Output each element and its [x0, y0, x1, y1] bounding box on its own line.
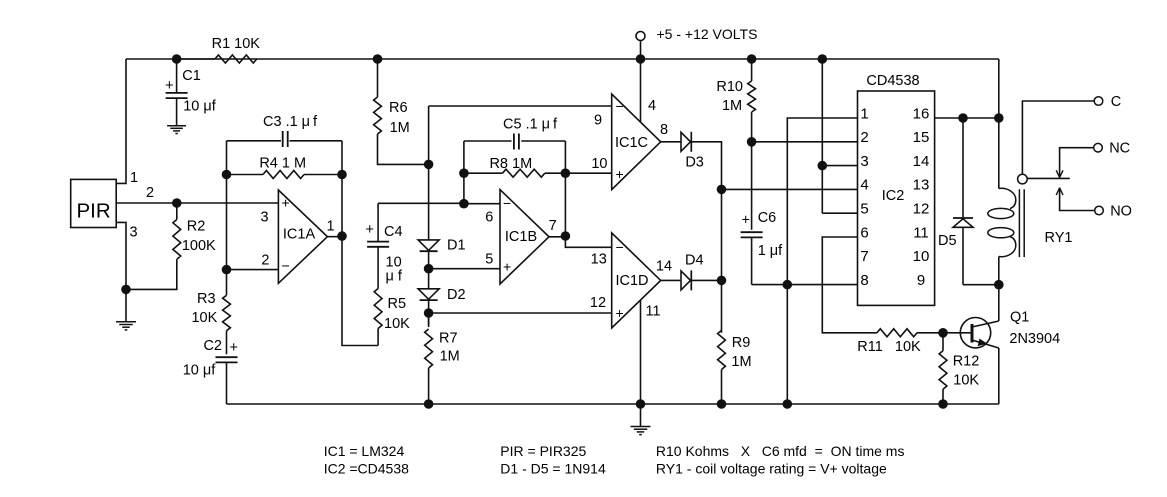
svg-text:14: 14: [656, 259, 672, 275]
svg-text:7: 7: [860, 248, 868, 265]
svg-text:10K: 10K: [191, 310, 217, 326]
svg-text:13: 13: [591, 251, 607, 267]
node R4 left: [222, 170, 232, 180]
svg-text:15: 15: [913, 129, 930, 146]
svg-text:R6: R6: [389, 100, 408, 116]
node R8 right: [561, 168, 571, 178]
wire C to armature pivot: [1022, 101, 1094, 174]
svg-text:9: 9: [917, 272, 925, 289]
svg-text:+: +: [503, 259, 511, 275]
svg-text:+: +: [616, 166, 624, 182]
resistor R8: [464, 172, 503, 174]
svg-text:C2: C2: [203, 338, 222, 354]
svg-text:6: 6: [860, 224, 868, 241]
svg-text:100K: 100K: [182, 238, 216, 254]
node IC1A output: [337, 231, 347, 241]
svg-text:D3: D3: [685, 155, 704, 171]
svg-text:+5 - +12 VOLTS: +5 - +12 VOLTS: [657, 26, 758, 42]
svg-text:5: 5: [860, 201, 868, 218]
resistor R2: [176, 203, 178, 220]
node D5 top: [958, 113, 968, 123]
ground (PIR): [125, 289, 127, 321]
svg-text:2: 2: [261, 252, 269, 268]
svg-text:8: 8: [660, 122, 668, 138]
wire D3 to pin4 column: [691, 142, 721, 190]
wire IC1B noninverting input: [429, 268, 500, 270]
resistor R1: [177, 58, 215, 60]
svg-text:Q1: Q1: [1010, 310, 1029, 326]
capacitor C6: [751, 142, 753, 230]
svg-text:10: 10: [591, 156, 607, 172]
node R6 / diode column junction: [424, 160, 434, 170]
svg-text:3: 3: [860, 153, 868, 170]
wire D2 to R7: [428, 300, 430, 325]
svg-text:μ f: μ f: [386, 269, 403, 285]
diode D1: [418, 240, 439, 251]
resistor R10: [751, 59, 753, 81]
svg-text:1M: 1M: [722, 98, 742, 114]
node R7 bottom on rail: [424, 399, 434, 409]
wire IC1A output: [327, 236, 342, 238]
wire C3/R4 left vertical: [226, 141, 228, 295]
resistor R7: [428, 313, 430, 327]
node R12 bottom on rail: [938, 399, 948, 409]
node R10 bottom / IC2 pin2: [747, 137, 757, 147]
node D4 junction: [717, 276, 727, 286]
diode D3: [681, 132, 691, 151]
svg-text:+: +: [742, 213, 750, 229]
svg-text:16: 16: [913, 105, 930, 122]
svg-text:RY1: RY1: [1045, 230, 1073, 246]
wire D1 to D2: [428, 252, 430, 289]
resistor R4: [227, 174, 264, 176]
op-amp IC1C: [612, 94, 661, 190]
wire PIR pin3 to ground node: [116, 222, 126, 289]
node PIR pin2 / R2 junction: [172, 198, 182, 208]
svg-text:+: +: [230, 340, 238, 356]
svg-text:R10: R10: [716, 79, 743, 95]
svg-text:NO: NO: [1110, 204, 1132, 220]
svg-text:R1 10K: R1 10K: [212, 36, 261, 52]
svg-text:8: 8: [860, 272, 868, 289]
capacitor C5: [464, 140, 512, 142]
wire IC1A output down to R5: [342, 236, 378, 345]
transistor Q1: [960, 318, 990, 348]
wire R2 bottom to ground node: [126, 260, 177, 289]
node D1 cathode / IC1B+: [424, 264, 434, 274]
svg-text:R9: R9: [732, 335, 751, 351]
svg-text:1M: 1M: [390, 120, 410, 136]
node Q1 base / R11 / R12: [938, 328, 948, 338]
node R9 bottom on rail: [717, 399, 727, 409]
resistor R5: [374, 289, 382, 329]
node R10 top: [747, 54, 757, 64]
svg-text:IC1D: IC1D: [615, 273, 648, 289]
node ground junction (PIR): [121, 285, 131, 295]
svg-text:R4 1 M: R4 1 M: [259, 156, 306, 172]
svg-text:NC: NC: [1109, 141, 1130, 157]
svg-text:+: +: [165, 78, 173, 94]
wire V+ top rail: [126, 58, 999, 60]
node pin4 tap: [717, 185, 727, 195]
capacitor C1: [176, 59, 178, 93]
terminal NC: [1094, 143, 1103, 152]
svg-text:D5: D5: [938, 233, 957, 249]
svg-text:1: 1: [130, 170, 138, 186]
svg-text:R5: R5: [388, 296, 407, 312]
wire C6 bottom to IC2 pin 8: [752, 284, 858, 286]
svg-text:PIR: PIR: [77, 199, 111, 222]
svg-text:IC2 =CD4538: IC2 =CD4538: [324, 460, 409, 476]
svg-text:C1: C1: [182, 68, 201, 84]
capacitor C2: [226, 331, 228, 355]
wire R8 right to IC1C noninverting input: [565, 172, 611, 174]
node V+ terminal junction: [636, 54, 646, 64]
node R6 top: [373, 54, 383, 64]
ground (bottom rail): [640, 404, 642, 427]
svg-text:4: 4: [648, 98, 656, 114]
node R8 left: [459, 168, 469, 178]
ground (C1): [167, 125, 186, 127]
terminal NO: [1095, 206, 1104, 215]
wire NC contact: [1060, 148, 1094, 178]
IC U2 CD4538: [858, 91, 935, 305]
wire D5 bottom to coil bottom node: [963, 284, 999, 286]
V+ terminal: [636, 32, 645, 41]
svg-text:10 μf: 10 μf: [183, 99, 217, 115]
diode D2: [418, 289, 439, 300]
svg-text:13: 13: [913, 177, 930, 194]
svg-text:IC1C: IC1C: [615, 135, 648, 151]
wire IC1D pin11 to ground rail: [640, 300, 642, 404]
node relay coil top: [994, 113, 1004, 123]
svg-text:1M: 1M: [731, 354, 751, 370]
wire coil bottom to Q1 collector: [998, 285, 1000, 321]
node coil bottom: [994, 280, 1004, 290]
svg-text:1 μf: 1 μf: [758, 243, 783, 259]
svg-text:R2: R2: [187, 219, 206, 235]
node pin1 column on rail: [783, 399, 793, 409]
wire IC1A inverting input: [227, 269, 279, 271]
capacitor C3: [227, 140, 282, 142]
svg-text:D1 - D5 = 1N914: D1 - D5 = 1N914: [500, 460, 606, 476]
svg-text:R3: R3: [197, 291, 216, 307]
wire C5/R8 left vertical: [463, 141, 465, 204]
svg-text:−: −: [616, 239, 624, 255]
svg-text:12: 12: [590, 295, 606, 311]
svg-text:11: 11: [646, 304, 661, 320]
wire R10 bottom to IC2 pin 2: [752, 141, 858, 143]
wire IC1D output to D4: [661, 279, 681, 281]
wire ground bottom rail: [227, 403, 999, 405]
node V+ column top: [818, 54, 828, 64]
diode D4: [681, 271, 691, 290]
node IC1B inverting input: [459, 199, 469, 209]
op-amp IC1A: [278, 190, 327, 283]
node D2 cathode / IC1D+: [424, 308, 434, 318]
svg-text:2N3904: 2N3904: [1009, 331, 1060, 347]
wire C3/R4 right vertical: [341, 141, 343, 236]
svg-text:IC1 = LM324: IC1 = LM324: [324, 443, 405, 459]
svg-text:R12: R12: [953, 353, 980, 369]
svg-text:1: 1: [326, 219, 334, 235]
svg-text:C5 .1 μ f: C5 .1 μ f: [503, 117, 558, 133]
wire diode column to IC1C inverting input: [429, 105, 612, 107]
relay RY1 coil: [998, 118, 1000, 189]
diode D5: [962, 118, 964, 218]
resistor R12: [942, 333, 944, 351]
svg-text:2: 2: [860, 129, 868, 146]
PIR module: [71, 179, 117, 227]
svg-text:−: −: [503, 195, 511, 211]
svg-text:IC1A: IC1A: [283, 227, 316, 243]
node pin8 ground junction: [783, 280, 793, 290]
svg-text:7: 7: [549, 218, 557, 234]
svg-text:9: 9: [594, 113, 602, 129]
svg-text:PIR = PIR325: PIR = PIR325: [500, 443, 586, 459]
wire R6 bottom to diode column: [378, 134, 429, 164]
wire IC2 pin 1 to ground rail: [787, 118, 857, 404]
resistor R6: [377, 59, 379, 97]
svg-text:R10 Kohms X C6 mfd = ON: R10 Kohms X C6 mfd = ON time ms: [656, 443, 905, 459]
svg-text:10K: 10K: [384, 316, 410, 332]
wire V+ to IC2 pin 3 and pin 5: [822, 59, 857, 213]
node IC1A inverting input: [222, 265, 232, 275]
svg-text:1M: 1M: [440, 348, 460, 364]
wire PIR pin2 to IC1A noninverting input: [116, 202, 279, 204]
wire IC1B output: [549, 236, 565, 238]
terminal C: [1094, 97, 1103, 106]
svg-text:C6: C6: [758, 210, 777, 226]
svg-text:14: 14: [913, 153, 930, 170]
wire Q1 emitter to rail: [998, 348, 1000, 404]
wire IC1B output to IC1D inverting input: [565, 236, 611, 247]
svg-text:IC1B: IC1B: [505, 229, 537, 245]
svg-text:D4: D4: [685, 253, 704, 269]
svg-text:+: +: [282, 195, 290, 211]
svg-text:C4: C4: [384, 224, 403, 240]
wire pin4 tap to IC2 pin 4: [722, 188, 858, 190]
wire IC1B inverting input: [464, 203, 500, 205]
svg-text:R11 10K: R11 10K: [857, 339, 921, 355]
svg-text:11: 11: [913, 224, 929, 241]
wire C4 top to IC1B inverting node: [378, 202, 464, 204]
resistor R11: [877, 329, 917, 337]
wire IC1C output to D3: [661, 141, 681, 143]
svg-text:+: +: [366, 222, 374, 238]
wire IC1C pin4 to V+ rail: [640, 59, 642, 123]
wire IC1D noninverting input: [429, 312, 612, 314]
svg-text:4: 4: [860, 177, 868, 194]
op-amp IC1D: [612, 233, 661, 328]
relay armature: [1027, 177, 1070, 179]
svg-text:1: 1: [860, 105, 868, 122]
svg-text:+: +: [616, 305, 624, 321]
svg-text:D1: D1: [447, 238, 466, 254]
node IC1B output: [561, 231, 571, 241]
svg-text:IC2: IC2: [882, 188, 905, 204]
svg-text:CD4538: CD4538: [866, 73, 919, 89]
wire diode node column: [721, 189, 723, 332]
svg-text:10 μf: 10 μf: [183, 363, 217, 379]
svg-text:5: 5: [485, 252, 493, 268]
svg-text:−: −: [616, 98, 624, 114]
wire diode column top (IC1C inverting feed): [428, 106, 430, 240]
svg-text:−: −: [282, 258, 290, 274]
svg-text:2: 2: [146, 185, 154, 201]
svg-text:R7: R7: [439, 330, 458, 346]
svg-text:C: C: [1111, 94, 1121, 110]
op-amp IC1B: [500, 190, 549, 284]
node C1 top: [172, 54, 182, 64]
svg-text:10K: 10K: [953, 372, 979, 388]
node pin3 tap: [818, 161, 828, 171]
wire NO contact: [1060, 188, 1095, 211]
wire D4 to diode node: [691, 279, 721, 281]
resistor R3: [223, 295, 231, 330]
node R4 right: [337, 170, 347, 180]
svg-text:3: 3: [260, 209, 268, 225]
capacitor C4: [377, 247, 379, 289]
relay armature pivot: [1018, 174, 1028, 184]
svg-text:6: 6: [485, 209, 493, 225]
svg-text:RY1 - coil voltage rating = V+: RY1 - coil voltage rating = V+ voltage: [656, 460, 887, 476]
wire C5/R8 right vertical: [564, 141, 566, 236]
svg-text:3: 3: [129, 225, 137, 241]
node pin11 ground rail: [636, 399, 646, 409]
svg-text:C3 .1 μ f: C3 .1 μ f: [263, 114, 318, 130]
svg-text:D2: D2: [447, 287, 466, 303]
wire IC2 pin16 to V+ rail corner: [935, 117, 999, 119]
wire IC2 pin 6 to R11: [822, 237, 877, 333]
resistor R9: [718, 330, 726, 369]
svg-text:10: 10: [913, 248, 930, 265]
svg-text:R8 1M: R8 1M: [489, 156, 532, 172]
svg-text:12: 12: [913, 201, 930, 218]
wire PIR pin1 to V+ rail: [116, 59, 126, 183]
